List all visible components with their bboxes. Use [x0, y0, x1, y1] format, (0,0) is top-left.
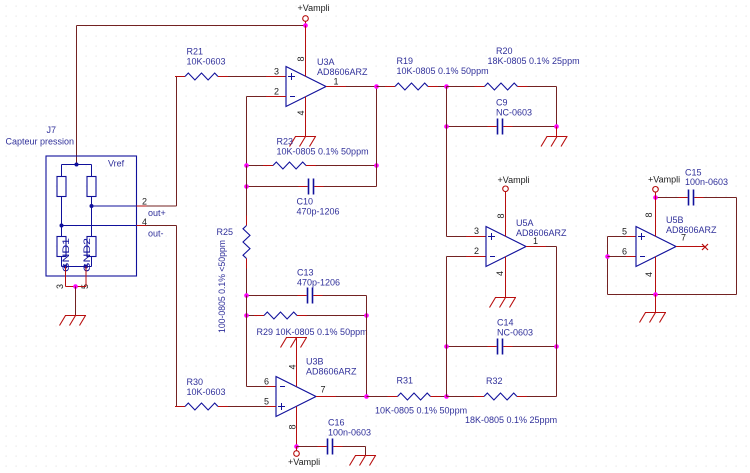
- wire C14 right down to R32: [556, 347, 558, 397]
- capacitor C14: [488, 339, 513, 355]
- pin number 3 (U5A): [474, 226, 479, 236]
- junction R23 right: [374, 163, 379, 168]
- svg-text:470p-1206: 470p-1206: [297, 207, 340, 217]
- pin number 3 (U3A): [274, 67, 279, 77]
- wire R30 to U3B pin5: [228, 406, 276, 408]
- pin number 8 (U3B, rotated): [288, 424, 298, 429]
- svg-text:+Vampli: +Vampli: [298, 3, 330, 13]
- svg-text:470p-1206: 470p-1206: [297, 278, 340, 288]
- label C13: [297, 268, 340, 288]
- bridge top node wires: [62, 165, 92, 177]
- label R25: [217, 227, 234, 237]
- junction C14 right: [554, 344, 559, 349]
- node J7 pin5: [84, 265, 88, 269]
- capacitor C15: [679, 190, 704, 206]
- label R23: [277, 137, 369, 157]
- label U5B: [666, 215, 717, 235]
- wire R32 right: [527, 396, 557, 398]
- power symbol +Vampli (U5A): [498, 175, 530, 192]
- pin number 4 (U3A, rotated): [296, 110, 306, 115]
- bridge resistor top-right: [87, 177, 96, 197]
- wire C9 row right: [513, 126, 557, 128]
- wire R25 net down to U3B pin6: [247, 296, 277, 387]
- label R20: [488, 46, 580, 66]
- U5B pin8 power wire: [655, 192, 657, 236]
- ground (J7): [60, 316, 87, 326]
- junction U5B pin4/ground net: [653, 292, 658, 297]
- svg-text:3: 3: [274, 67, 279, 77]
- J7 pin 4 wire inside: [62, 225, 137, 227]
- svg-text:10K-0805 0.1% 50ppm: 10K-0805 0.1% 50ppm: [397, 66, 489, 76]
- wire R19-R20: [438, 86, 447, 88]
- wire U3B feedback drop: [366, 296, 368, 397]
- svg-text:U5B: U5B: [666, 215, 684, 225]
- pin number 4 (U5A, rotated): [495, 271, 505, 276]
- pin number 4: [142, 217, 147, 227]
- node out- (bridge left mid): [60, 224, 64, 228]
- U5A pin8 power wire: [505, 192, 507, 237]
- pin number 7 (U3B): [321, 385, 326, 395]
- junction R31/R32: [444, 394, 449, 399]
- U3A pin8 power wire: [305, 26, 307, 77]
- svg-text:Vref: Vref: [108, 159, 125, 169]
- svg-text:C15: C15: [685, 168, 702, 178]
- svg-text:7: 7: [681, 233, 686, 243]
- capacitor C10: [299, 179, 324, 195]
- junction C9 left: [444, 124, 449, 129]
- node bridge top: [75, 163, 79, 167]
- U5A pin4 ground wire: [505, 257, 507, 298]
- J7 pin 2 wire inside: [92, 205, 137, 207]
- resistor R30: [175, 403, 228, 410]
- svg-text:NC-0603: NC-0603: [497, 328, 533, 338]
- wire U3A output feedback drop: [376, 87, 378, 187]
- svg-text:100n-0603: 100n-0603: [328, 428, 371, 438]
- wire C13 row right: [323, 295, 367, 297]
- svg-text:R30: R30: [187, 377, 204, 387]
- svg-text:5: 5: [264, 397, 269, 407]
- svg-text:100n-0603: 100n-0603: [685, 177, 728, 187]
- svg-text:AD8606ARZ: AD8606ARZ: [516, 228, 567, 238]
- label C10: [297, 197, 340, 217]
- wire R25 bottom: [246, 269, 248, 296]
- svg-text:8: 8: [496, 213, 506, 218]
- junction R19/R20: [444, 84, 449, 89]
- svg-text:out+: out+: [148, 208, 166, 218]
- label R29: [257, 327, 368, 337]
- pin number 2 (U3A): [274, 87, 279, 97]
- wire to ground (C9): [556, 127, 558, 137]
- svg-text:10K-0805 0.1% 50ppm: 10K-0805 0.1% 50ppm: [277, 147, 369, 157]
- svg-text:AD8606ARZ: AD8606ARZ: [317, 67, 368, 77]
- junction U3A output: [374, 84, 379, 89]
- capacitor C13: [298, 288, 323, 304]
- svg-text:Capteur pression: Capteur pression: [6, 137, 75, 147]
- label R32: [465, 376, 557, 425]
- svg-text:4: 4: [288, 364, 298, 369]
- svg-text:4: 4: [296, 110, 306, 115]
- svg-text:8: 8: [296, 56, 306, 61]
- pin number 5 (U5B): [622, 227, 627, 237]
- pin number 5 (U3B): [264, 397, 269, 407]
- svg-text:10K-0805 0.1% 50ppm: 10K-0805 0.1% 50ppm: [375, 406, 467, 416]
- wire to ground: [75, 287, 77, 316]
- wire R19/R20 junction down to U5A pin3: [447, 87, 487, 237]
- svg-text:7: 7: [321, 385, 326, 395]
- wire C13 row left: [247, 295, 298, 297]
- wire out- to R30: [137, 226, 177, 407]
- ground (R20/C9): [541, 137, 568, 147]
- resistor R20: [475, 83, 528, 90]
- pin number 1 (U5A): [533, 236, 538, 246]
- svg-text:R29 10K-0805 0.1% 50ppm: R29 10K-0805 0.1% 50ppm: [257, 327, 368, 337]
- wire U5A pin2 net: [447, 257, 487, 397]
- svg-text:U3A: U3A: [317, 57, 335, 67]
- wire U5B bottom rail: [608, 294, 737, 296]
- label R21: [187, 47, 226, 67]
- junction U5B pin5/pin6: [605, 254, 610, 259]
- wire R31-R32: [441, 396, 447, 398]
- pin number 3 (rotated): [55, 284, 65, 289]
- label C15: [685, 168, 728, 188]
- label R31: [375, 376, 467, 416]
- wire +Vampli to C16: [297, 446, 318, 448]
- wire U5B output: [676, 246, 705, 248]
- U3B pin8 power wire: [296, 407, 298, 447]
- svg-text:100-0805 0.1% <50ppm: 100-0805 0.1% <50ppm: [217, 240, 227, 333]
- junction R23 left: [244, 163, 249, 168]
- power symbol +Vampli (U3B): [288, 447, 320, 468]
- junction C15/pin8: [653, 195, 658, 200]
- svg-text:C16: C16: [328, 418, 345, 428]
- junction R29 right: [364, 313, 369, 318]
- svg-text:R31: R31: [397, 376, 414, 386]
- resistor R29: [254, 312, 307, 319]
- bridge resistor bottom-left GND1: [57, 237, 71, 273]
- junction U3B output/feedback: [364, 394, 369, 399]
- pin number 4 (U5B, rotated): [644, 272, 654, 277]
- ground (U3B pin4): [281, 338, 308, 348]
- bridge resistor top-left: [57, 177, 66, 197]
- resistor R23: [263, 162, 316, 169]
- pin number 4 (U3B, rotated): [288, 364, 298, 369]
- wire to R32: [447, 396, 475, 398]
- resistor R32: [474, 393, 527, 400]
- svg-text:R32: R32: [486, 376, 503, 386]
- wire U3B output: [316, 396, 367, 398]
- resistor R21: [175, 73, 228, 80]
- resistor R19: [385, 83, 438, 90]
- U3A pin4 ground wire: [305, 97, 307, 137]
- wire U5B top rail: [704, 197, 737, 199]
- resistor R25: [243, 216, 250, 269]
- pin number 6 (U3B): [264, 377, 269, 387]
- wire R21 to U3A pin3: [228, 76, 286, 78]
- svg-text:R25: R25: [217, 227, 234, 237]
- junction pins3/5: [73, 284, 78, 289]
- svg-text:C9: C9: [496, 98, 508, 108]
- bridge left branch wire: [61, 197, 63, 237]
- svg-text:1: 1: [334, 77, 339, 87]
- svg-text:3: 3: [474, 226, 479, 236]
- wire U5B pin6: [608, 256, 637, 258]
- label R19: [397, 56, 489, 76]
- wire R29 row right: [307, 315, 367, 317]
- label U3A: [317, 57, 368, 77]
- junction U3B pin8/C16: [294, 444, 299, 449]
- U3B pin4 ground wire: [296, 338, 298, 387]
- wire down to J7 bridge top: [76, 26, 78, 165]
- svg-text:1: 1: [533, 236, 538, 246]
- wire out+ to R21: [137, 77, 177, 207]
- bridge resistor bottom-right GND2: [82, 237, 96, 273]
- bridge right branch wire: [91, 197, 93, 237]
- wire C10 row left: [247, 186, 299, 188]
- power symbol +Vampli (top): [298, 3, 330, 26]
- svg-text:6: 6: [264, 377, 269, 387]
- wire to R31: [367, 396, 388, 398]
- label U5A: [516, 218, 567, 238]
- wire U3A output: [326, 86, 377, 88]
- net label out+: [148, 208, 166, 218]
- pin number 2 (U5A): [474, 246, 479, 256]
- junction C9 right: [554, 124, 559, 129]
- net label out-: [148, 229, 164, 239]
- svg-text:8: 8: [288, 424, 298, 429]
- net label Vref: [108, 159, 125, 169]
- op-amp U3A: [286, 67, 326, 107]
- svg-text:6: 6: [622, 247, 627, 257]
- junction C14 left: [444, 344, 449, 349]
- wire C16 to ground: [343, 447, 366, 456]
- ground (U5B): [640, 313, 667, 323]
- resistor R31: [388, 393, 441, 400]
- svg-text:5: 5: [622, 227, 627, 237]
- pin number 8 (U5B, rotated): [644, 212, 654, 217]
- svg-text:R23: R23: [277, 137, 294, 147]
- svg-text:+Vampli: +Vampli: [648, 175, 680, 185]
- junction +Vampli / U3A pin8: [303, 23, 308, 28]
- svg-text:10K-0603: 10K-0603: [187, 387, 226, 397]
- svg-text:J7: J7: [47, 125, 57, 135]
- J7 pin5 wire: [85, 267, 87, 287]
- svg-text:C14: C14: [497, 318, 514, 328]
- wire C10 row right: [324, 186, 377, 188]
- pin number 5 (rotated): [80, 284, 90, 289]
- ground (U5A pin4): [490, 298, 517, 308]
- wire C14 row left: [447, 346, 488, 348]
- wire R29 row left: [247, 315, 255, 317]
- wire R23 row right: [316, 165, 377, 167]
- U5B pin4 wire: [655, 257, 657, 295]
- op-amp U5B: [636, 227, 676, 267]
- pin number 7 (U5B): [681, 233, 686, 243]
- svg-text:out-: out-: [148, 229, 164, 239]
- svg-text:C13: C13: [297, 268, 314, 278]
- wire R25 top: [246, 166, 248, 216]
- wire R20 right corner: [528, 87, 557, 127]
- svg-text:NC-0603: NC-0603: [496, 108, 532, 118]
- wire to ground (U5B): [655, 295, 657, 313]
- capacitor C9: [488, 119, 513, 135]
- node out+ (bridge right mid): [90, 204, 94, 208]
- pin number 6 (U5B): [622, 247, 627, 257]
- svg-text:2: 2: [142, 197, 147, 207]
- op-amp U5A: [486, 227, 526, 267]
- power symbol +Vampli (U5B): [648, 175, 680, 193]
- node J7 pin3: [64, 265, 68, 269]
- no-connect X (U5B pin7): [702, 244, 708, 250]
- wire C15 to pin8: [656, 197, 679, 199]
- wire U5B right rail: [736, 198, 738, 295]
- label C14: [497, 318, 533, 338]
- wire to R20: [447, 86, 475, 88]
- wire U3A pin2: [247, 97, 287, 166]
- ground (U3A pin4): [290, 137, 317, 147]
- ground (C16): [350, 456, 377, 466]
- svg-text:2: 2: [474, 246, 479, 256]
- svg-text:U5A: U5A: [516, 218, 534, 228]
- svg-text:AD8606ARZ: AD8606ARZ: [666, 225, 717, 235]
- pin number 2: [142, 197, 147, 207]
- svg-text:R20: R20: [496, 46, 513, 56]
- svg-text:AD8606ARZ: AD8606ARZ: [306, 367, 357, 377]
- pin number 8 (U3A, rotated): [296, 56, 306, 61]
- svg-text:2: 2: [274, 87, 279, 97]
- op-amp U3B: [276, 377, 316, 417]
- connector J7 box: [46, 156, 137, 276]
- capacitor C16: [318, 439, 343, 455]
- label U3B: [306, 357, 357, 377]
- wire U5B pin5 net: [608, 237, 637, 295]
- connector J7 label: [6, 125, 75, 147]
- wire +Vampli horizontal to bridge: [77, 25, 306, 27]
- pin number 1 (U3A): [334, 77, 339, 87]
- svg-text:R19: R19: [397, 56, 414, 66]
- junction C10 left: [244, 184, 249, 189]
- svg-text:10K-0603: 10K-0603: [187, 57, 226, 67]
- label C16: [328, 418, 371, 438]
- pin number 8 (U5A, rotated): [496, 213, 506, 218]
- bridge bottom wires: [62, 257, 92, 267]
- junction C13 left: [244, 293, 249, 298]
- svg-text:18K-0805 0.1% 25ppm: 18K-0805 0.1% 25ppm: [465, 415, 557, 425]
- J7 pin3 wire: [65, 267, 67, 287]
- svg-text:8: 8: [644, 212, 654, 217]
- svg-text:C10: C10: [297, 197, 314, 207]
- svg-text:+Vampli: +Vampli: [288, 457, 320, 467]
- svg-text:+Vampli: +Vampli: [498, 175, 530, 185]
- wire C14 row right: [513, 346, 557, 348]
- wire R23 row left: [247, 165, 264, 167]
- svg-text:18K-0805 0.1% 25ppm: 18K-0805 0.1% 25ppm: [488, 56, 580, 66]
- svg-text:R21: R21: [187, 47, 204, 57]
- junction R29 left: [244, 313, 249, 318]
- wire U5A output: [526, 247, 557, 347]
- wire to R19: [377, 86, 386, 88]
- svg-text:4: 4: [495, 271, 505, 276]
- svg-text:3: 3: [55, 284, 65, 289]
- wire C9 row left: [447, 126, 488, 128]
- label R25 value (rotated): [217, 240, 227, 333]
- svg-text:U3B: U3B: [306, 357, 324, 367]
- label C9: [496, 98, 532, 118]
- svg-text:4: 4: [644, 272, 654, 277]
- label R30: [187, 377, 226, 397]
- wire joining pins 3 and 5: [66, 286, 87, 288]
